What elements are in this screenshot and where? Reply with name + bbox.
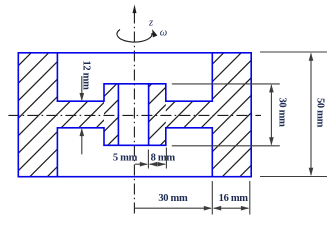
svg-text:8 mm: 8 mm [151, 153, 176, 164]
dimension 5 mm (bore radius) [113, 153, 148, 167]
svg-text:ω: ω [160, 28, 167, 39]
dimension 50 mm (right, overall height), rotated label [260, 52, 327, 177]
bore wall left [117, 84, 119, 146]
hub hatching [0, 40, 266, 230]
part outline: outer rectangle [18, 53, 251, 177]
svg-text:30 mm: 30 mm [277, 97, 288, 127]
svg-text:5 mm: 5 mm [113, 153, 138, 164]
vertical rotation axis centerline [133, 13, 135, 216]
svg-text:z: z [148, 18, 153, 29]
part outline: bottom cavity profile (web bottom, hub bottom) [57, 128, 212, 177]
part outline: top cavity profile (rim inner edges, web top, hub top) [57, 53, 212, 101]
dimension 30 mm (bottom, hub radius to rim) [135, 181, 213, 215]
dimension 30 mm (right, hub height), rotated label [172, 84, 288, 146]
svg-text:16 mm: 16 mm [219, 193, 249, 204]
svg-text:50 mm: 50 mm [315, 98, 326, 128]
dimension 16 mm (bottom, rim width) [213, 181, 250, 215]
dimension 12 mm (web thickness), rotated label [80, 60, 92, 154]
svg-text:30 mm: 30 mm [158, 193, 188, 204]
z-axis arrowhead [133, 5, 137, 14]
rotation arrow omega (elliptical arc) [117, 30, 152, 43]
dimension 8 mm (hub wall) [148, 148, 175, 169]
section hatching (45 deg) [0, 40, 333, 230]
bore wall right [148, 84, 150, 146]
horizontal centerline [8, 114, 261, 116]
